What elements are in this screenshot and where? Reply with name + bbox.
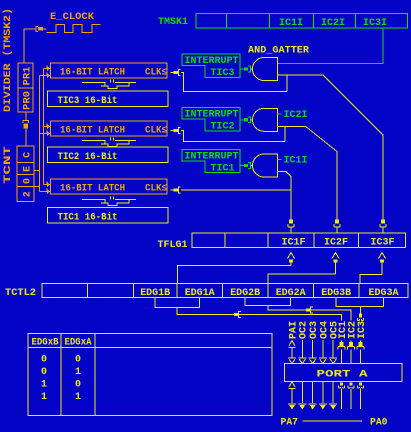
svg-text:IC2I: IC2I bbox=[284, 110, 308, 121]
wire bracket channel2 flag set bbox=[268, 274, 336, 284]
label DIVIDER (TMSK2) bbox=[2, 8, 14, 112]
wire net channel1 clock/flag bbox=[181, 172, 291, 218]
wire net channel2 clock/flag bbox=[181, 126, 337, 217]
svg-text:PORT A: PORT A bbox=[317, 370, 368, 381]
svg-text:EDG2A: EDG2A bbox=[276, 288, 306, 299]
pin stub below box PAI bbox=[288, 382, 296, 410]
register TFLG1 box bbox=[192, 233, 406, 248]
pin stub below box OC3 bbox=[309, 382, 317, 410]
svg-text:IC3I: IC3I bbox=[363, 18, 387, 29]
svg-text:0: 0 bbox=[41, 367, 47, 378]
pin line IC2 plug bbox=[348, 341, 355, 364]
svg-text:TCNT: TCNT bbox=[3, 146, 14, 184]
connector green plug gate2 output bbox=[240, 117, 253, 123]
svg-text:EDG3A: EDG3A bbox=[369, 288, 399, 299]
svg-text:EDG3B: EDG3B bbox=[321, 288, 351, 299]
table row 1 1 bbox=[41, 392, 81, 403]
interrupt box TIC2 bbox=[182, 108, 240, 133]
label bit IC2I bbox=[321, 18, 345, 29]
label PA7 bbox=[281, 417, 299, 428]
label TCNT bbox=[3, 146, 14, 184]
connector green plug gate3 output bbox=[240, 163, 253, 169]
pin line OC4 with arrows bbox=[319, 340, 327, 364]
wire E-clock to prescaler bbox=[24, 29, 36, 63]
wire channel1 to pin IC1 bbox=[177, 308, 342, 321]
connector up-arrow below IC3F bbox=[379, 253, 386, 275]
pin line OC2 with arrows bbox=[298, 340, 306, 364]
svg-text:0: 0 bbox=[75, 379, 81, 390]
svg-text:TIC3 16-Bit: TIC3 16-Bit bbox=[58, 95, 118, 107]
pin line PAI with arrows bbox=[288, 341, 296, 364]
pin label IC1 bbox=[338, 321, 349, 339]
wire bracket channel3 flag set bbox=[360, 275, 382, 284]
svg-text:TFLG1: TFLG1 bbox=[158, 240, 188, 251]
svg-text:0: 0 bbox=[75, 354, 81, 365]
latch U2 16-BIT LATCH (channel 2) bbox=[51, 121, 168, 136]
svg-text:16-BIT LATCH: 16-BIT LATCH bbox=[60, 125, 125, 136]
svg-text:EDG2B: EDG2B bbox=[230, 288, 260, 299]
table row 0 1 bbox=[41, 367, 81, 378]
svg-text:E: E bbox=[22, 166, 33, 172]
connector E-clock plug bbox=[36, 26, 47, 31]
wire TCNT to bus stubs bbox=[34, 171, 40, 187]
svg-text:1: 1 bbox=[41, 379, 47, 390]
svg-text:AND_GATTER: AND_GATTER bbox=[248, 46, 309, 57]
register TCNT counter box (value C E 0 2) bbox=[17, 146, 34, 202]
svg-text:IC1I: IC1I bbox=[279, 18, 303, 29]
interrupt box TIC3 bbox=[182, 54, 240, 79]
connector up-arrow below IC1F bbox=[288, 253, 295, 266]
latch U3 16-BIT LATCH (channel 1) bbox=[51, 179, 168, 194]
port box PORT A bbox=[285, 364, 403, 382]
svg-text:16-BIT LATCH: 16-BIT LATCH bbox=[60, 183, 125, 194]
wire IC2I enable stub bbox=[278, 113, 282, 115]
register TIC3 16-Bit bbox=[48, 91, 169, 107]
svg-text:0: 0 bbox=[41, 354, 47, 365]
transfer squiggle latch2 to TIC2 bbox=[82, 138, 136, 147]
connector arrow at latch3 CLK bbox=[171, 187, 181, 193]
svg-text:PR1: PR1 bbox=[23, 67, 34, 86]
label AND_GATTER bbox=[248, 46, 309, 57]
svg-text:C: C bbox=[22, 152, 33, 158]
svg-text:TMSK1: TMSK1 bbox=[158, 17, 188, 28]
svg-text:EDG1A: EDG1A bbox=[185, 288, 215, 299]
label bit IC1I bbox=[279, 18, 303, 29]
pin label OC5 bbox=[330, 321, 341, 339]
label TFLG1 bbox=[158, 240, 188, 251]
pin label IC3 bbox=[357, 321, 368, 339]
wire edge-detect pair 2 bracket bbox=[245, 298, 291, 306]
svg-text:TIC1 16-Bit: TIC1 16-Bit bbox=[58, 211, 118, 223]
wire net channel3 clock/flag bbox=[181, 73, 383, 218]
wire PA7-PA0 dash bbox=[303, 420, 363, 422]
svg-text:EDGxB: EDGxB bbox=[32, 338, 59, 349]
connector plug above IC3F bbox=[380, 218, 386, 234]
connector CLK plug latch2 bbox=[171, 128, 181, 134]
label IC1I at gate3 bbox=[284, 156, 308, 167]
pin line OC5 with arrows bbox=[329, 340, 337, 364]
svg-text:TIC2: TIC2 bbox=[211, 122, 235, 133]
svg-text:CLK≤: CLK≤ bbox=[145, 125, 167, 136]
label E_CLOCK bbox=[50, 12, 94, 23]
table EDGxB/EDGxA truth table bbox=[28, 334, 272, 416]
pin label OC2 bbox=[299, 321, 310, 339]
node bus arrows into latch 1 bbox=[40, 65, 51, 78]
table row 0 0 bbox=[41, 354, 81, 365]
and-gate G1 (IC3) bbox=[253, 58, 278, 81]
connector left-plug on channel1 wire bbox=[234, 312, 241, 318]
interrupt box TIC1 bbox=[182, 150, 240, 175]
node bus arrows into latch 3 bbox=[40, 181, 51, 194]
pin stub below box OC2 bbox=[298, 382, 306, 410]
table row 1 0 bbox=[41, 379, 81, 390]
svg-text:1: 1 bbox=[41, 392, 47, 403]
wire channel3 to pin IC3 bbox=[360, 307, 362, 314]
svg-text:1: 1 bbox=[75, 392, 81, 403]
label TCTL2 bbox=[5, 288, 36, 299]
and-gate G3 (IC1) bbox=[253, 154, 278, 177]
register TIC2 16-Bit bbox=[48, 147, 169, 163]
register TIC1 16-Bit bbox=[48, 208, 169, 224]
register TCTL2 box bbox=[42, 284, 408, 299]
pin stub below box OC4 bbox=[319, 382, 327, 410]
transfer squiggle latch1 to TIC3 bbox=[82, 80, 136, 89]
svg-text:1: 1 bbox=[75, 367, 81, 378]
wire channel2 to pin IC2 bbox=[268, 306, 351, 321]
pin line IC1 plug bbox=[338, 341, 345, 364]
wire TCNT bus line B bbox=[39, 76, 41, 192]
label PA0 bbox=[370, 417, 388, 428]
connector left-plug on channel2 wire bbox=[306, 307, 313, 313]
svg-text:INTERRUPT: INTERRUPT bbox=[185, 152, 239, 163]
and-gate G2 (IC2) bbox=[253, 108, 278, 131]
pin stub below box IC2 bbox=[348, 383, 354, 409]
pin label PAI bbox=[288, 321, 299, 339]
pin stub below box IC1 bbox=[338, 383, 344, 409]
svg-text:IC3F: IC3F bbox=[371, 237, 395, 248]
svg-text:IC1F: IC1F bbox=[282, 237, 306, 248]
pin label IC2 bbox=[348, 321, 359, 339]
svg-text:PA0: PA0 bbox=[370, 417, 388, 428]
svg-text:IC3: IC3 bbox=[357, 321, 368, 339]
svg-text:INTERRUPT: INTERRUPT bbox=[185, 56, 239, 67]
connector up-arrow below IC2F bbox=[332, 253, 339, 275]
connector green plug gate1 output bbox=[240, 66, 253, 72]
wire IC3I enable to gate1 bbox=[278, 28, 383, 64]
svg-text:IC2I: IC2I bbox=[321, 18, 345, 29]
connector CLK plug latch1 bbox=[171, 70, 181, 76]
E-clock waveform bbox=[47, 24, 101, 32]
latch U1 16-BIT LATCH (channel 3) bbox=[51, 63, 168, 78]
svg-text:0: 0 bbox=[22, 178, 33, 184]
register TMSK1 box bbox=[196, 13, 408, 28]
pin stub below box OC5 bbox=[329, 382, 337, 410]
svg-text:TIC3: TIC3 bbox=[211, 68, 235, 79]
pin label OC4 bbox=[319, 321, 330, 339]
svg-text:PA7: PA7 bbox=[281, 417, 299, 428]
svg-text:CLK≤: CLK≤ bbox=[145, 67, 167, 78]
wire IC1I enable stub bbox=[278, 159, 282, 161]
svg-text:TCTL2: TCTL2 bbox=[5, 288, 36, 299]
svg-text:IC2F: IC2F bbox=[324, 237, 348, 248]
svg-text:TIC1: TIC1 bbox=[211, 164, 235, 175]
svg-text:PR0: PR0 bbox=[23, 91, 34, 110]
pin stub below box IC3 bbox=[357, 383, 363, 409]
wire prescaler to TCNT bbox=[25, 112, 27, 121]
svg-text:EDGxA: EDGxA bbox=[65, 338, 92, 349]
connector plug above IC1F bbox=[288, 218, 294, 234]
register PR0/PR1 prescaler box bbox=[18, 63, 34, 112]
connector plug above IC2F bbox=[334, 218, 340, 234]
node bus arrows into latch 2 bbox=[40, 123, 51, 136]
svg-text:TIC2 16-Bit: TIC2 16-Bit bbox=[58, 151, 118, 163]
svg-text:16-BIT LATCH: 16-BIT LATCH bbox=[60, 67, 125, 78]
transfer squiggle latch3 to TIC1 bbox=[82, 197, 136, 206]
wire edge-detect pair 3 bracket bbox=[336, 298, 383, 307]
label IC2I at gate2 bbox=[284, 110, 308, 121]
svg-text:EDG1B: EDG1B bbox=[140, 288, 170, 299]
label bit IC3I bbox=[363, 18, 387, 29]
wire bracket channel1 flag set bbox=[178, 266, 292, 284]
wire edge-detect pair 1 bracket bbox=[155, 298, 200, 308]
connector plug below prescaler bbox=[23, 121, 29, 146]
svg-text:DIVIDER (TMSK2): DIVIDER (TMSK2) bbox=[2, 8, 14, 112]
label TMSK1 bbox=[158, 17, 188, 28]
wire TCNT bus line A bbox=[43, 69, 45, 185]
svg-text:INTERRUPT: INTERRUPT bbox=[185, 110, 239, 121]
pin label OC3 bbox=[309, 321, 320, 339]
svg-text:IC1I: IC1I bbox=[284, 156, 308, 167]
pin line OC3 with arrows bbox=[309, 340, 317, 364]
svg-text:E_CLOCK: E_CLOCK bbox=[50, 12, 94, 23]
svg-text:2: 2 bbox=[22, 191, 33, 197]
pin line IC3 plug bbox=[357, 341, 364, 364]
connector down-plug on channel3 wire bbox=[357, 314, 363, 321]
svg-text:CLK≤: CLK≤ bbox=[145, 183, 167, 194]
